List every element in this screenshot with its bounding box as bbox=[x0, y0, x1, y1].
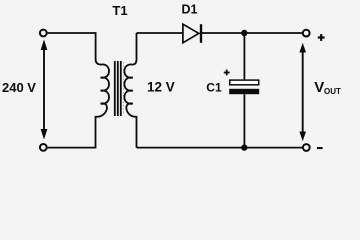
terminal output top-right bbox=[303, 30, 310, 37]
capacitor C1 bottom plate (solid) bbox=[229, 89, 259, 94]
svg-text:T1: T1 bbox=[112, 3, 127, 18]
transformer core line 2 bbox=[117, 61, 119, 116]
transformer core line 3 bbox=[120, 61, 122, 116]
core faint dashed line bbox=[122, 62, 124, 115]
junction node bottom (capacitor tap) bbox=[241, 144, 247, 150]
svg-text:240 V: 240 V bbox=[2, 80, 36, 95]
terminal output bottom-right bbox=[303, 144, 310, 151]
minus sign output bbox=[317, 147, 323, 149]
svg-text:D1: D1 bbox=[182, 3, 198, 17]
svg-text:OUT: OUT bbox=[324, 87, 341, 96]
diode D1 cathode bar bbox=[200, 24, 202, 43]
svg-text:V: V bbox=[314, 79, 324, 96]
terminal input top-left bbox=[40, 30, 47, 37]
junction node top (capacitor tap) bbox=[241, 30, 247, 36]
svg-text:12 V: 12 V bbox=[147, 80, 175, 95]
terminal input bottom-left bbox=[40, 144, 47, 151]
arrow Vout (double-headed) bbox=[299, 43, 306, 141]
diode D1 triangle bbox=[183, 24, 199, 43]
wire diode to output + terminal bbox=[202, 32, 303, 34]
plus sign output bbox=[318, 34, 325, 41]
wire capacitor branch lower bbox=[243, 94, 245, 147]
transformer T1 primary winding + leads bbox=[48, 33, 109, 148]
transformer T1 secondary winding + leads bbox=[124, 33, 136, 148]
transformer core line 1 bbox=[114, 61, 116, 116]
capacitor C1 plus polarity mark bbox=[224, 70, 230, 76]
capacitor C1 top plate (hollow) bbox=[230, 80, 259, 85]
wire capacitor branch upper bbox=[243, 33, 245, 80]
wire bottom (secondary to output - terminal) bbox=[137, 147, 303, 149]
wire secondary top to diode bbox=[137, 32, 184, 34]
arrow 240V (double-headed) bbox=[41, 40, 48, 140]
svg-text:C1: C1 bbox=[206, 81, 222, 95]
